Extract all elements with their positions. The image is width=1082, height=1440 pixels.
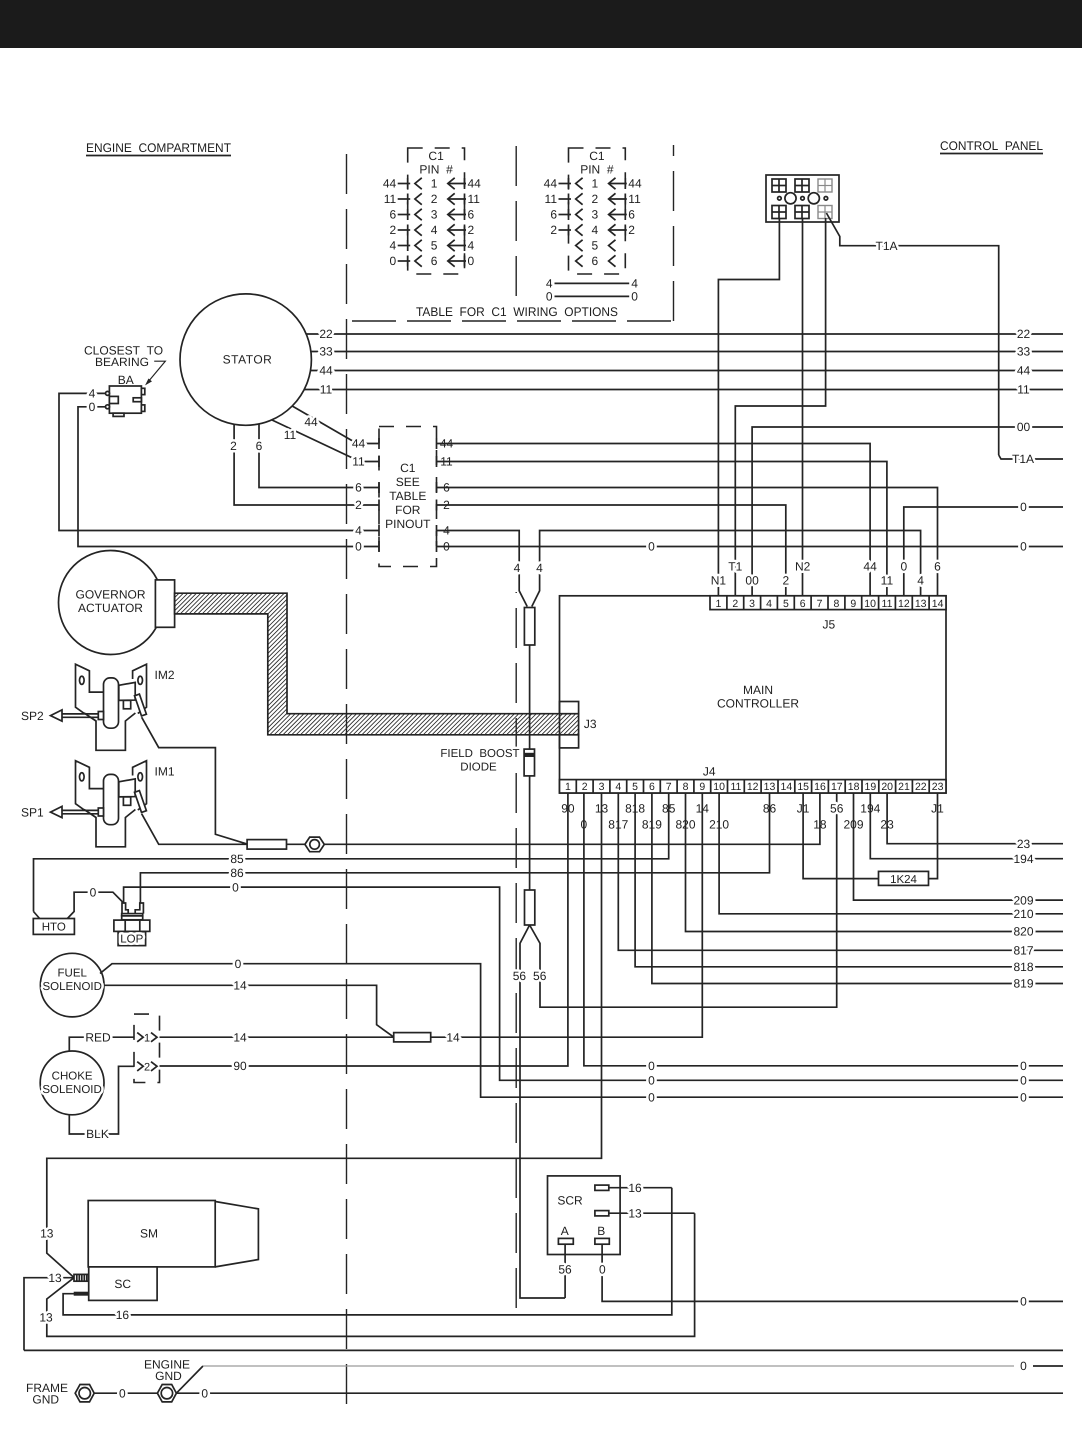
wire 0 engine gnd branch to control panel <box>176 1366 203 1393</box>
svg-text:20: 20 <box>881 781 893 793</box>
wire 4 J5 pin 13 to field boost diode <box>532 531 921 607</box>
wire 0 engine gnd to control panel <box>176 1392 1063 1394</box>
svg-text:HTO: HTO <box>42 922 66 934</box>
wire 820 J4 pin 8 to control panel <box>686 793 1064 932</box>
svg-text:FOR: FOR <box>395 503 421 517</box>
connector table C1 option B pin 1 <box>576 178 583 189</box>
svg-text:8: 8 <box>683 781 689 793</box>
wire 90 connector to J4 pin 1 <box>160 793 568 1066</box>
wire 0 fuel solenoid to control panel <box>100 964 1063 1097</box>
svg-text:DIODE: DIODE <box>460 762 497 774</box>
svg-text:14: 14 <box>446 1030 460 1044</box>
svg-text:5: 5 <box>783 598 789 610</box>
svg-text:2: 2 <box>732 598 738 610</box>
wire 14 fuel solenoid to fuse F4 <box>104 985 394 1037</box>
connector table C1 option B pin 4 <box>576 224 583 235</box>
svg-text:16: 16 <box>628 1181 642 1195</box>
svg-text:11: 11 <box>628 192 641 206</box>
svg-text:6: 6 <box>390 208 397 222</box>
svg-text:33: 33 <box>319 345 333 359</box>
wire IM2 to fuse F3 <box>142 717 247 844</box>
wire 4 BA to C1 <box>59 393 379 530</box>
svg-text:PIN #: PIN # <box>580 163 614 177</box>
wire T1A block to J5 pin 6 (N2) <box>802 218 804 596</box>
wire 00 J5 pin 3 to control panel <box>752 427 1063 596</box>
svg-text:2: 2 <box>592 192 599 206</box>
svg-text:0: 0 <box>546 290 553 304</box>
svg-text:2: 2 <box>550 223 557 237</box>
bus wire bottom <box>24 1349 1063 1351</box>
svg-text:16: 16 <box>116 1308 130 1322</box>
svg-text:0: 0 <box>900 560 907 574</box>
svg-text:7: 7 <box>666 781 672 793</box>
boundary dashed line center <box>515 145 517 296</box>
wire 86 LOP to J4 pin 13 <box>140 793 769 903</box>
svg-text:0: 0 <box>648 1090 655 1104</box>
svg-text:11: 11 <box>284 428 297 442</box>
svg-text:2: 2 <box>582 781 588 793</box>
svg-text:SP1: SP1 <box>21 806 44 820</box>
wire field boost <box>529 645 531 749</box>
svg-text:44: 44 <box>1017 364 1031 378</box>
svg-text:13: 13 <box>915 598 927 610</box>
svg-text:ACTUATOR: ACTUATOR <box>78 601 143 615</box>
svg-text:TABLE: TABLE <box>389 489 426 503</box>
svg-text:00: 00 <box>1017 420 1031 434</box>
svg-text:1: 1 <box>592 177 599 191</box>
svg-text:4: 4 <box>546 277 553 291</box>
svg-text:210: 210 <box>1013 907 1033 921</box>
svg-text:STATOR: STATOR <box>223 353 273 367</box>
wire diode to fuse F2 <box>529 776 531 890</box>
connector table C1 option B pin 5 <box>576 240 583 251</box>
connector table C1 option A pin 5 <box>415 240 422 251</box>
starter motor SM <box>88 1201 215 1267</box>
svg-text:0: 0 <box>119 1386 126 1400</box>
svg-text:0: 0 <box>648 540 655 554</box>
wire RED choke to connector <box>69 1037 134 1051</box>
svg-text:SP2: SP2 <box>21 709 44 723</box>
terminal block T1A contacts <box>778 197 782 201</box>
svg-text:56: 56 <box>533 969 547 983</box>
svg-text:4: 4 <box>468 239 475 253</box>
svg-text:11: 11 <box>545 192 558 206</box>
svg-text:13: 13 <box>764 781 776 793</box>
wire 0 SCR B to control panel <box>602 1244 1063 1301</box>
svg-text:4: 4 <box>615 781 621 793</box>
wire T1A to control panel <box>826 213 998 455</box>
svg-text:SC: SC <box>114 1277 131 1291</box>
wire 2 stator to C1 <box>234 424 379 505</box>
svg-text:CONTROL PANEL: CONTROL PANEL <box>940 139 1043 153</box>
svg-text:6: 6 <box>800 598 806 610</box>
switch HTO <box>34 912 40 919</box>
svg-text:11: 11 <box>320 383 333 397</box>
svg-text:44: 44 <box>468 177 482 191</box>
table B jumper wire 4-4 <box>555 282 630 284</box>
governor actuator harness (hatched) <box>175 593 579 735</box>
svg-text:BEARING: BEARING <box>95 355 149 369</box>
wire 14 fuse F4 to J4 pin 9 <box>431 793 703 1037</box>
svg-text:BA: BA <box>118 373 134 387</box>
svg-text:MAIN: MAIN <box>743 683 773 697</box>
svg-text:4: 4 <box>631 277 638 291</box>
svg-text:RED: RED <box>85 1030 111 1044</box>
svg-text:16: 16 <box>814 781 826 793</box>
svg-text:0: 0 <box>232 880 239 894</box>
svg-text:17: 17 <box>831 781 843 793</box>
wire 2 C1 to J5 pin 5 <box>437 505 786 596</box>
wire 13 branch <box>24 1278 74 1351</box>
svg-text:0: 0 <box>1020 540 1027 554</box>
wire 85 HTO to J4 pin 7 <box>34 793 669 912</box>
ignition module IM1 <box>51 761 147 847</box>
svg-text:6: 6 <box>550 208 557 222</box>
svg-text:4: 4 <box>917 574 924 588</box>
svg-text:819: 819 <box>1013 977 1033 991</box>
connector table C1 option B <box>569 148 626 274</box>
svg-text:0: 0 <box>1020 1295 1027 1309</box>
svg-text:4: 4 <box>431 223 438 237</box>
svg-text:818: 818 <box>1013 960 1033 974</box>
svg-text:CONTROLLER: CONTROLLER <box>717 697 799 711</box>
svg-text:C1: C1 <box>428 149 444 163</box>
svg-text:PINOUT: PINOUT <box>385 517 431 531</box>
svg-text:GND: GND <box>155 1369 182 1383</box>
wire 818 J4 pin 5 to control panel <box>635 793 1063 967</box>
connector table C1 option B pin 2 <box>576 193 583 204</box>
wire 11 stator to control panel <box>304 389 1063 391</box>
rectifier SCR <box>548 1176 621 1255</box>
wire 6 stator to C1 <box>259 424 379 488</box>
SCR terminal 16 <box>595 1185 609 1190</box>
wire 210 J4 pin 10 to control panel <box>719 793 1063 914</box>
svg-text:2: 2 <box>390 223 397 237</box>
svg-text:19: 19 <box>865 781 877 793</box>
svg-text:44: 44 <box>304 415 318 429</box>
svg-text:2: 2 <box>431 192 438 206</box>
svg-text:6: 6 <box>934 560 941 574</box>
svg-text:J5: J5 <box>822 618 835 632</box>
svg-text:FIELD BOOST: FIELD BOOST <box>440 748 519 760</box>
svg-text:0: 0 <box>648 1059 655 1073</box>
table area bottom dashed line <box>352 320 674 322</box>
svg-text:IM1: IM1 <box>155 765 175 779</box>
svg-text:44: 44 <box>383 177 397 191</box>
svg-text:TABLE FOR C1 WIRING OPTION: TABLE FOR C1 WIRING OPTIONS <box>416 305 618 319</box>
svg-text:0: 0 <box>1020 1359 1027 1373</box>
svg-text:4: 4 <box>592 223 599 237</box>
wire 18 nut to J4 pin 16 <box>324 793 820 844</box>
wire 11 C1 to J5 pin 11 <box>437 462 887 596</box>
wire 44 C1 to J5 pin 10 <box>437 444 871 596</box>
fuel solenoid <box>40 953 104 1017</box>
starter connector <box>74 1274 89 1281</box>
svg-text:5: 5 <box>632 781 638 793</box>
svg-text:11: 11 <box>1017 383 1030 397</box>
svg-text:18: 18 <box>848 781 860 793</box>
field boost diode D1 <box>524 749 534 776</box>
stator <box>180 294 311 425</box>
svg-text:0: 0 <box>90 885 97 899</box>
svg-text:9: 9 <box>699 781 705 793</box>
connector table C1 option A pin 1 <box>415 178 422 189</box>
svg-text:5: 5 <box>592 239 599 253</box>
svg-text:44: 44 <box>319 364 333 378</box>
svg-text:2: 2 <box>468 223 475 237</box>
svg-text:0: 0 <box>631 290 638 304</box>
svg-text:15: 15 <box>797 781 809 793</box>
svg-text:2: 2 <box>782 574 789 588</box>
wire 194 J4 pin 19 to control panel <box>870 793 1063 859</box>
svg-text:2: 2 <box>230 439 237 453</box>
switch LOP <box>122 903 128 914</box>
wire T1A block to J5 pin 2 (T1) <box>735 218 825 596</box>
svg-text:6: 6 <box>431 254 438 268</box>
wire 14 connector to fuse F4 <box>160 1036 394 1038</box>
svg-text:0: 0 <box>1020 500 1027 514</box>
svg-text:13: 13 <box>40 1227 54 1241</box>
svg-text:14: 14 <box>781 781 793 793</box>
svg-text:3: 3 <box>749 598 755 610</box>
svg-text:4: 4 <box>89 387 96 401</box>
svg-text:0: 0 <box>235 957 242 971</box>
fuse F1 <box>524 608 534 646</box>
svg-text:0: 0 <box>1020 1059 1027 1073</box>
main controller <box>560 596 947 793</box>
connector choke 2-pin <box>134 1014 160 1082</box>
svg-text:9: 9 <box>850 598 856 610</box>
svg-text:56: 56 <box>513 969 527 983</box>
svg-text:SOLENOID: SOLENOID <box>42 981 101 993</box>
ignition module IM2 <box>51 664 147 750</box>
connector table C1 option A pin 6 <box>415 255 422 266</box>
terminal block T1A <box>766 175 839 222</box>
wire 56 SCR A <box>564 1244 566 1298</box>
wire 16 SC to SCR <box>63 1188 672 1315</box>
wire 817 J4 pin 4 to control panel <box>618 793 1063 950</box>
svg-text:6: 6 <box>468 208 475 222</box>
svg-text:T1A: T1A <box>875 239 897 253</box>
nut terminal <box>305 837 324 852</box>
svg-text:22: 22 <box>915 781 927 793</box>
connector table C1 option B pin 3 <box>576 209 583 220</box>
fuse F4 <box>394 1033 431 1042</box>
svg-text:10: 10 <box>864 598 876 610</box>
wire IM1 to fuse F3 <box>142 814 248 845</box>
wire 4 C1 to field boost diode <box>437 531 528 607</box>
svg-text:5: 5 <box>431 239 438 253</box>
svg-text:6: 6 <box>256 439 263 453</box>
svg-text:11: 11 <box>384 192 397 206</box>
svg-text:GOVERNOR: GOVERNOR <box>75 588 145 602</box>
svg-text:14: 14 <box>233 1030 247 1044</box>
wire 22 stator to control panel <box>306 333 1063 335</box>
svg-text:4: 4 <box>536 561 543 575</box>
svg-text:6: 6 <box>628 208 635 222</box>
svg-text:10: 10 <box>713 781 725 793</box>
svg-text:13: 13 <box>628 1206 642 1220</box>
connector choke pin 2 <box>137 1062 143 1071</box>
svg-text:1: 1 <box>565 781 571 793</box>
svg-text:0: 0 <box>648 1074 655 1088</box>
svg-text:23: 23 <box>1017 837 1031 851</box>
svg-text:86: 86 <box>230 866 244 880</box>
wire 0 frame gnd to engine gnd <box>94 1392 157 1394</box>
fuse F3 <box>247 840 286 850</box>
svg-text:22: 22 <box>1017 327 1031 341</box>
wire 56 to J4 pin 17 <box>530 793 837 1007</box>
svg-text:0: 0 <box>1020 1090 1027 1104</box>
svg-text:T1A: T1A <box>1012 452 1034 466</box>
svg-text:0: 0 <box>390 254 397 268</box>
svg-text:14: 14 <box>932 598 944 610</box>
svg-text:194: 194 <box>1013 852 1033 866</box>
wire 23 J4 pin 20 to control panel <box>887 793 1063 844</box>
svg-text:00: 00 <box>745 574 759 588</box>
svg-text:J4: J4 <box>703 764 716 778</box>
svg-text:4: 4 <box>390 239 397 253</box>
svg-text:SM: SM <box>140 1227 158 1241</box>
connector table C1 option A pin 2 <box>415 193 422 204</box>
choke solenoid <box>40 1051 104 1115</box>
SCR terminal 13 <box>595 1211 609 1216</box>
wire 0 J4 pin 2 to control panel <box>584 793 1063 1066</box>
governor actuator <box>59 551 163 655</box>
svg-text:56: 56 <box>558 1262 572 1276</box>
wire 44 stator to C1 <box>292 406 379 444</box>
svg-text:90: 90 <box>233 1059 247 1073</box>
svg-text:1: 1 <box>144 1032 150 1044</box>
svg-text:2: 2 <box>355 498 362 512</box>
svg-text:CHOKE: CHOKE <box>52 1071 93 1083</box>
svg-text:33: 33 <box>1017 345 1031 359</box>
svg-text:C1: C1 <box>589 149 605 163</box>
svg-text:B: B <box>597 1224 605 1238</box>
svg-text:A: A <box>561 1224 569 1238</box>
svg-text:J3: J3 <box>584 717 597 731</box>
svg-text:4: 4 <box>355 524 362 538</box>
svg-text:0: 0 <box>355 540 362 554</box>
wire 44 stator to control panel <box>311 370 1064 372</box>
svg-text:7: 7 <box>817 598 823 610</box>
wire 0 BA to C1 <box>78 407 379 547</box>
svg-text:22: 22 <box>319 327 333 341</box>
connector table C1 option A pin 3 <box>415 209 422 220</box>
svg-text:FUEL: FUEL <box>57 968 87 980</box>
svg-text:T1: T1 <box>728 560 742 574</box>
svg-text:817: 817 <box>1013 944 1033 958</box>
wire 6 C1 to J5 pin 14 <box>437 488 938 596</box>
svg-text:SCR: SCR <box>557 1194 583 1208</box>
svg-text:1: 1 <box>715 598 721 610</box>
svg-text:6: 6 <box>649 781 655 793</box>
table B jumper wire 0-0 <box>555 295 630 297</box>
svg-text:2: 2 <box>144 1062 150 1074</box>
svg-text:44: 44 <box>863 560 877 574</box>
wire 0 J5 pin 12 to control panel <box>904 507 1063 596</box>
svg-text:44: 44 <box>352 437 366 451</box>
svg-text:44: 44 <box>628 177 642 191</box>
svg-text:11: 11 <box>881 574 894 588</box>
connector table C1 option A pin 4 <box>415 224 422 235</box>
svg-text:SOLENOID: SOLENOID <box>42 1084 101 1096</box>
wire F3 to nut <box>287 843 305 845</box>
svg-text:6: 6 <box>592 254 599 268</box>
wire BLK choke to connector <box>69 1066 134 1134</box>
wire 209 J4 pin 18 to control panel <box>854 793 1064 900</box>
svg-text:N2: N2 <box>795 560 811 574</box>
wire 13 J4 pin 3 to starter <box>47 793 602 1278</box>
svg-text:GND: GND <box>32 1393 59 1407</box>
svg-text:21: 21 <box>898 781 910 793</box>
svg-text:13: 13 <box>39 1311 53 1325</box>
svg-text:4: 4 <box>766 598 772 610</box>
svg-text:820: 820 <box>1013 925 1033 939</box>
wire T1A block to J5 pin 1 (N1) <box>718 218 779 596</box>
svg-text:LOP: LOP <box>120 934 143 946</box>
connector table C1 option B pin 6 <box>576 255 583 266</box>
header banner <box>0 0 1082 48</box>
svg-text:SEE: SEE <box>396 475 420 489</box>
svg-text:209: 209 <box>1013 893 1033 907</box>
svg-text:13: 13 <box>48 1271 62 1285</box>
boundary dashed line right <box>673 145 675 321</box>
svg-text:44: 44 <box>544 177 558 191</box>
svg-text:N1: N1 <box>711 574 727 588</box>
wire 0 LOP to control panel <box>124 887 1063 1080</box>
wire 13 to SCR <box>47 1213 695 1336</box>
svg-text:8: 8 <box>833 598 839 610</box>
svg-text:3: 3 <box>592 208 599 222</box>
connector choke pin 1 <box>137 1033 143 1042</box>
fuse F2 <box>525 890 535 925</box>
resistor 1K24 <box>803 793 878 879</box>
boundary dashed line left <box>346 142 348 1404</box>
svg-text:56: 56 <box>830 802 844 816</box>
svg-text:0: 0 <box>468 254 475 268</box>
svg-text:3: 3 <box>599 781 605 793</box>
svg-text:11: 11 <box>468 192 481 206</box>
svg-text:23: 23 <box>932 781 944 793</box>
svg-text:11: 11 <box>882 598 893 610</box>
svg-text:3: 3 <box>431 208 438 222</box>
svg-text:14: 14 <box>233 979 247 993</box>
wire 819 J4 pin 6 to control panel <box>652 793 1063 984</box>
svg-text:PIN #: PIN # <box>419 163 453 177</box>
wire 11 stator to C1 <box>272 420 379 462</box>
svg-text:0: 0 <box>599 1262 606 1276</box>
wire 0 HTO to LOP <box>67 892 123 918</box>
svg-text:ENGINE COMPARTMENT: ENGINE COMPARTMENT <box>86 141 231 155</box>
svg-text:11: 11 <box>730 781 741 793</box>
svg-text:12: 12 <box>898 598 910 610</box>
wire 0 C1 to control panel <box>437 546 1064 548</box>
svg-text:0: 0 <box>89 400 96 414</box>
connector table C1 option A <box>408 148 465 274</box>
svg-text:11: 11 <box>352 455 365 469</box>
svg-text:IM2: IM2 <box>155 668 175 682</box>
svg-text:2: 2 <box>628 223 635 237</box>
svg-text:C1: C1 <box>400 461 416 475</box>
starter contactor SC <box>89 1267 157 1301</box>
svg-text:0: 0 <box>201 1386 208 1400</box>
svg-text:6: 6 <box>355 481 362 495</box>
svg-text:85: 85 <box>230 852 244 866</box>
connector J3 <box>560 702 579 714</box>
svg-text:0: 0 <box>1020 1074 1027 1088</box>
svg-text:BLK: BLK <box>86 1127 109 1141</box>
